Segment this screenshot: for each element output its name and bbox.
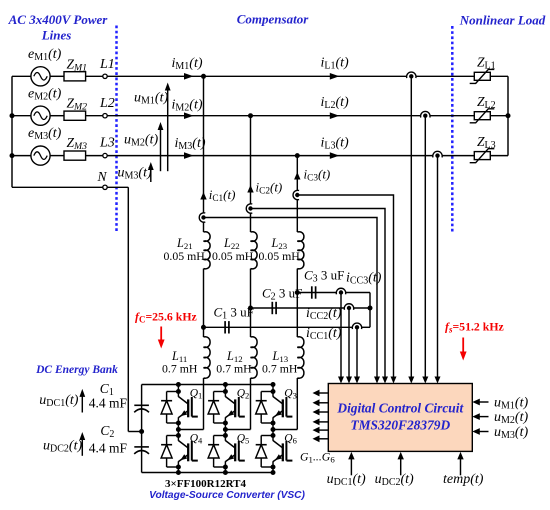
wire line L1 right [416, 75, 475, 77]
node L2 terminal [103, 114, 107, 118]
junction leg 3 diode top anode [271, 421, 276, 426]
svg-text:0.05 mH: 0.05 mH [164, 249, 206, 263]
transistor Q4 (IGBT) [178, 441, 197, 462]
current arrow i_L2 [330, 112, 340, 119]
junction branch 1 capacitor tap [201, 325, 206, 330]
nonlinear load impedance Z_L2 [470, 109, 495, 123]
junction leg 3 diode top cathode tap [271, 389, 276, 394]
wire Z_M1 to node L1 [86, 75, 103, 77]
junction DC midpoint [139, 429, 144, 434]
wire sense i_L2 [424, 116, 426, 377]
wire compensator branch 3 [296, 156, 298, 191]
wire Z_L1 to load bus [490, 75, 508, 77]
wire sense i_L3 [437, 156, 439, 377]
wire C3 to star bus [346, 292, 371, 294]
junction leg 1 phase tap [176, 427, 181, 432]
node N terminal [103, 185, 107, 189]
wire source to Z_M3 [50, 155, 64, 157]
gate signal arrow y=430.1 [313, 427, 329, 434]
svg-text:C1 3 uF: C1 3 uF [214, 305, 254, 322]
svg-text:Compensator: Compensator [237, 12, 309, 27]
wire VSC leg 1 [177, 385, 179, 397]
wire line L3 right [442, 155, 474, 157]
inductor L21 [204, 232, 211, 269]
impedance Z_M3 [64, 151, 86, 160]
svg-text:L2: L2 [99, 96, 115, 111]
dashed boundary line right [451, 26, 454, 232]
svg-text:Digital Control Circuit: Digital Control Circuit [336, 400, 464, 415]
svg-text:Lines: Lines [41, 28, 72, 43]
transistor Q6 (IGBT) [273, 441, 292, 462]
svg-text:4.4 mF: 4.4 mF [89, 441, 128, 456]
svg-text:4.4 mF: 4.4 mF [89, 396, 128, 411]
diode D6 (antiparallel) [256, 436, 273, 468]
capacitor C2 (DC bank 4.4 mF) [134, 447, 149, 454]
diode D5 (antiparallel) [208, 436, 225, 468]
current arrow i_C1 [200, 192, 206, 200]
input arrow temp [457, 452, 463, 475]
transistor Q2 (IGBT) [225, 397, 244, 418]
sensor hook i_C2 [246, 204, 252, 213]
diode D1 (antiparallel) [161, 392, 178, 424]
wire sense i_CC3 [340, 293, 342, 378]
inductor L22 [251, 232, 258, 269]
gate signal arrow y=438.8 [313, 435, 329, 442]
junction leg 2 phase tap [223, 427, 228, 432]
junction star bus [368, 306, 373, 311]
input arrow u_DC1 [348, 452, 354, 475]
junction load bus [506, 113, 511, 118]
wire line L2 right [430, 115, 475, 117]
current arrow i_L3 [330, 152, 340, 159]
junction branch 3 capacitor tap [295, 290, 300, 295]
wire C2 left [251, 307, 345, 309]
wire C1 to star bus [362, 326, 371, 328]
wire source to Z_M1 [50, 75, 64, 77]
source e_M1 [31, 67, 50, 86]
junction leg 2 diode top anode [223, 421, 228, 426]
wire VSC DC- rail [142, 472, 273, 474]
junction leg 3 phase tap [271, 427, 276, 432]
svg-text:0.7 mH: 0.7 mH [262, 361, 298, 375]
wire capacitor star bus [369, 293, 371, 328]
wire N vertical down [127, 187, 129, 431]
gate signal arrow y=402.8 [313, 399, 329, 406]
input arrow u_DC2 [398, 452, 404, 475]
nonlinear load impedance Z_L1 [470, 69, 495, 83]
wire Z_L2 to load bus [490, 115, 508, 117]
sensor hook i_L2 [421, 111, 430, 117]
wire phase tap leg 3 to branch [273, 429, 297, 431]
current arrow i_L1 [330, 73, 340, 80]
svg-text:temp(t): temp(t) [443, 472, 484, 487]
junction leg 2 diode bottom cathode [223, 433, 228, 438]
wire phase tap leg 1 to branch [178, 429, 203, 431]
inductor L13 [297, 337, 304, 378]
voltage arrow u_M1 [165, 83, 171, 172]
wire Z_M3 to node L3 [86, 155, 103, 157]
sensor hook i_C3 [293, 190, 299, 199]
node L3 terminal [103, 153, 107, 157]
nonlinear load impedance Z_L3 [470, 149, 495, 163]
dashed boundary line left [115, 26, 118, 232]
wire line L3 [107, 155, 433, 157]
wire bus to source e_M2 [12, 115, 31, 117]
wire phase tap leg 2 to branch [225, 429, 250, 431]
transistor Q3 (IGBT) [273, 397, 292, 418]
wire VSC leg 2 [224, 385, 226, 397]
wire sense i_CC1 [356, 327, 358, 377]
wire line L1 [107, 75, 407, 77]
inductor L11 [204, 337, 211, 378]
arrowhead sense line into DCC x=357 [354, 377, 360, 384]
junction leg 1 top rail [176, 382, 181, 387]
input arrow u_M1 [472, 399, 488, 406]
sensor hook i_L3 [433, 151, 442, 157]
arrowhead sense line into DCC x=385 [382, 377, 388, 384]
impedance Z_M1 [64, 72, 86, 81]
svg-text:Voltage-Source Converter (VSC): Voltage-Source Converter (VSC) [149, 490, 305, 501]
arrowhead sense line into DCC x=393.5 [391, 377, 397, 384]
wire N to right [107, 186, 128, 188]
wire bus to source e_M3 [12, 155, 31, 157]
diode D4 (antiparallel) [161, 436, 178, 468]
source e_M2 [31, 106, 50, 125]
svg-text:0.05 mH: 0.05 mH [259, 249, 301, 263]
gate signal arrow y=412 [313, 409, 329, 416]
svg-text:Nonlinear Load: Nonlinear Load [459, 13, 546, 28]
arrowhead sense line into DCC x=377 [374, 377, 380, 384]
gate signal arrow y=393 [313, 390, 329, 397]
wire sense i_L1 [410, 76, 412, 377]
junction leg 1 diode bottom cathode [176, 433, 181, 438]
capacitor C1 (DC bank 4.4 mF) [134, 405, 149, 412]
svg-text:0.05 mH: 0.05 mH [212, 249, 254, 263]
current arrow i_M1 [184, 73, 194, 80]
sensor hook i_CC2 [344, 304, 353, 310]
junction branch 2 capacitor tap [248, 306, 253, 311]
arrowhead sense line into DCC x=349 [346, 377, 352, 384]
diode D2 (antiparallel) [208, 392, 225, 424]
arrowhead sense line into DCC x=437.5 [435, 377, 441, 384]
wire compensator branch 1 [203, 76, 205, 213]
wire compensator branch 2 [250, 116, 252, 204]
voltage arrow u_M3 [148, 162, 154, 182]
junction L1 / compensator branch 1 [201, 74, 206, 79]
wire sense i_C2 [251, 209, 386, 378]
voltage arrow u_M2 [158, 122, 164, 171]
arrowhead sense line into DCC x=411.3 [408, 377, 414, 384]
svg-text:3×FF100R12RT4: 3×FF100R12RT4 [165, 478, 247, 490]
junction leg 1 diode top anode [176, 421, 181, 426]
junction leg 2 top rail [223, 382, 228, 387]
junction leg 2 diode bottom anode [223, 465, 228, 470]
svg-text:C2 3 uF: C2 3 uF [262, 286, 302, 303]
svg-text:C3 3 uF: C3 3 uF [304, 268, 344, 285]
junction leg 1 diode bottom anode [176, 465, 181, 470]
svg-text:DC Energy Bank: DC Energy Bank [35, 364, 118, 376]
capacitor C1 [225, 321, 229, 333]
wire VSC leg 3 [272, 385, 274, 397]
svg-text:L1: L1 [99, 57, 115, 72]
arrowhead sense line into DCC x=425.3 [422, 377, 428, 384]
wire source to Z_M2 [50, 115, 64, 117]
diode D3 (antiparallel) [256, 392, 273, 424]
junction leg 3 diode bottom cathode [271, 433, 276, 438]
transistor Q5 (IGBT) [225, 441, 244, 462]
svg-text:TMS320F28379D: TMS320F28379D [350, 417, 450, 432]
input arrow u_M2 [472, 413, 488, 420]
capacitor C3 [312, 286, 316, 298]
impedance Z_M2 [64, 111, 86, 120]
svg-text:AC 3x400V Power: AC 3x400V Power [8, 12, 109, 27]
svg-text:0.7 mH: 0.7 mH [216, 361, 252, 375]
voltage arrow u_DC1 [79, 389, 85, 413]
sensor hook i_C1 [199, 213, 205, 222]
current arrow i_M2 [184, 112, 194, 119]
wire left source bus [11, 76, 13, 187]
junction leg 3 top rail [271, 382, 276, 387]
wire DC cap string [141, 385, 143, 473]
junction leg 3 bottom rail [271, 470, 276, 475]
input arrow u_M3 [472, 428, 488, 435]
wire C1 left [204, 326, 353, 328]
wire sense i_C3 [297, 195, 393, 377]
junction L2 / compensator branch 2 [248, 113, 253, 118]
junction leg 3 diode bottom anode [271, 465, 276, 470]
svg-text:L3: L3 [99, 136, 115, 151]
arrowhead sense line into DCC x=341 [338, 377, 344, 384]
wire C2 to star bus [354, 307, 371, 309]
wire sense i_CC2 [348, 308, 350, 377]
junction leg 2 bottom rail [223, 470, 228, 475]
sensor hook i_CC3 [336, 288, 345, 294]
current arrow i_C2 [247, 185, 253, 193]
inductor L12 [251, 337, 258, 378]
wire line L2 [107, 115, 421, 117]
sensor hook i_L1 [407, 72, 416, 78]
node L1 terminal [103, 74, 107, 78]
voltage arrow u_DC2 [79, 432, 85, 456]
junction L3 / compensator branch 3 [295, 153, 300, 158]
source e_M3 [31, 146, 50, 165]
current arrow i_M3 [184, 152, 194, 159]
current arrow i_C3 [294, 172, 300, 180]
svg-text:fs=51.2 kHz: fs=51.2 kHz [445, 320, 504, 335]
sensor hook i_CC1 [352, 323, 361, 329]
svg-text:N: N [97, 169, 108, 184]
wire Z_M2 to node L2 [86, 115, 103, 117]
wire C3 left [297, 292, 336, 294]
wire Z_L3 to load bus [490, 155, 508, 157]
transistor Q1 (IGBT) [178, 397, 197, 418]
gate signal arrow y=421.9 [313, 419, 329, 426]
wire sense i_C1 [204, 218, 378, 378]
inductor L23 [297, 232, 304, 269]
junction leg 1 diode top cathode tap [176, 389, 181, 394]
wire VSC DC+ rail [142, 384, 273, 386]
junction leg 1 bottom rail [176, 470, 181, 475]
red arrow f_s [460, 338, 467, 361]
junction left bus L3 [10, 153, 15, 158]
junction leg 2 diode top cathode tap [223, 389, 228, 394]
capacitor C2 [272, 302, 276, 314]
red arrow f_C [158, 327, 165, 349]
wire load right bus [507, 76, 509, 155]
wire bus to source e_M1 [12, 75, 31, 77]
svg-text:0.7 mH: 0.7 mH [162, 361, 198, 375]
wire N from bus [12, 186, 104, 188]
junction left bus L2 [10, 113, 15, 118]
wire N to DC midpoint [128, 431, 141, 433]
digital control circuit U1 (TMS320F28379D) [328, 384, 472, 452]
